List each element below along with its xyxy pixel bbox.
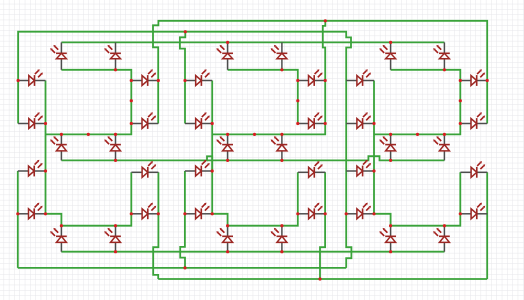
junction bottom rail D2 C-right — [318, 277, 321, 280]
junction D2 D2 bottom — [226, 250, 229, 253]
junction D3 D2 top — [443, 224, 446, 227]
junction D2 E2 left — [183, 212, 186, 215]
junction D1 B-left mid — [130, 99, 133, 102]
LED D1-B1 — [131, 69, 158, 86]
junction bus ROW2 dropper — [184, 30, 187, 33]
LED D2-B2 — [298, 112, 325, 129]
junction D1 E2 left — [16, 212, 19, 215]
junction D3 E2 right — [372, 212, 375, 215]
wire D2 C-right vertical with jog to bottom rail — [320, 172, 325, 279]
LED D3-B1 — [460, 69, 487, 86]
junction D1 G2 top — [114, 133, 117, 136]
junction D1-A2 bottom — [114, 68, 117, 71]
wire D2 D-segment top and C-left riser — [228, 172, 298, 225]
LED D1-G1 — [50, 134, 67, 160]
LED D2-D1 — [216, 226, 233, 252]
wire D-segment bottom rail — [61, 251, 444, 253]
junction D3 D2 bottom — [389, 250, 392, 253]
junction D1 D1 top — [60, 224, 63, 227]
LED D2-B1 — [298, 69, 325, 86]
LED D1-B2 — [131, 112, 158, 129]
junction D2 D2 top — [280, 224, 283, 227]
junction D1 G1 top — [60, 133, 63, 136]
junction D2 D1 top — [226, 224, 229, 227]
junction D1 G2 bottom — [114, 159, 117, 162]
wire D3 D-segment top and C-left riser — [391, 172, 461, 225]
junction D3 G1 bottom — [389, 159, 392, 162]
wire bottom rail ROW4 — [18, 267, 346, 269]
LED D3-B2 — [460, 112, 487, 129]
wire bus ROW1 top rail with end drops — [153, 21, 487, 124]
junction D3 C2 left — [459, 212, 462, 215]
junction D2-A2 bottom — [280, 68, 283, 71]
wire D2 A-segment bottom to B-left — [228, 70, 298, 124]
junction D2 B1 left — [296, 79, 299, 82]
LED D3-D2 — [433, 226, 450, 252]
wire D1 A-segment bottom to B-left — [61, 70, 131, 124]
junction D3 D1 top — [389, 224, 392, 227]
LED D2-C2 — [298, 203, 325, 220]
LED D3-D1 — [379, 226, 396, 252]
LED D2-E2 — [185, 203, 212, 220]
wire dropper to D2 F column — [180, 32, 185, 124]
junction D2 G mid — [253, 133, 256, 136]
junction D1 F1 left — [17, 79, 20, 82]
LED D2-F2 — [185, 112, 212, 129]
junction D1 B1 right — [157, 79, 160, 82]
LED D1-F1 — [18, 69, 45, 86]
LED D1-C2 — [131, 203, 158, 220]
LED D3-G2 — [433, 134, 450, 160]
junction D2-A1 top — [226, 41, 229, 44]
junction D2 G2 top — [280, 133, 283, 136]
junction D1 B2 left — [130, 122, 133, 125]
junction D2 E2 right — [211, 212, 214, 215]
LED D1-E1 — [18, 160, 46, 177]
wire G-segment bottom rail continued — [207, 156, 444, 160]
wire D1 E-left vertical — [17, 171, 19, 268]
LED D1-F2 — [18, 112, 45, 129]
junction D2 B1 right — [324, 79, 327, 82]
LED D3-A2 — [433, 42, 450, 69]
junction D1 G mid — [87, 133, 90, 136]
LED D3-F1 — [346, 69, 374, 86]
LED D2-F1 — [185, 69, 212, 86]
junction D2 C2 left — [296, 212, 299, 215]
LED D1-G2 — [104, 134, 121, 160]
LED D1-D2 — [104, 226, 121, 252]
junction D3 F2 right — [372, 122, 375, 125]
wire bottom rail ROW5 — [158, 278, 487, 280]
LED D1-D1 — [50, 226, 67, 252]
junction D3 G2 top — [443, 133, 446, 136]
wire D3 B-left riser to G-top — [374, 124, 460, 135]
junction D2 G1 bottom — [226, 159, 229, 162]
wire D3 F/E right vertical and D-top feed — [374, 81, 391, 226]
junction D2 G2 bottom — [280, 159, 283, 162]
junction D2 B-left mid — [296, 99, 299, 102]
junction D1 D2 bottom — [114, 250, 117, 253]
junction D1 F2 right — [44, 122, 47, 125]
wire dropper to D2 B column and D2 G-top — [212, 21, 325, 135]
wire D2 F/E right vertical and D-top feed — [212, 81, 227, 226]
LED D2-A2 — [271, 42, 288, 69]
junction D2 D2 bottom — [280, 250, 283, 253]
LED D2-A1 — [216, 42, 233, 69]
junction D3 B1 left — [459, 79, 462, 82]
junction D2 C2 right — [324, 212, 327, 215]
junction D2 F2 right — [211, 122, 214, 125]
junction D2 G1 top — [226, 133, 229, 136]
LED D2-G2 — [271, 134, 288, 160]
junction D1 D2 top — [114, 224, 117, 227]
junction D1 B1 left — [130, 79, 133, 82]
wire D3 A-segment bottom to B-left — [391, 70, 461, 124]
junction bus ROW1 dropper — [324, 19, 327, 22]
junction D2 F1 left — [183, 79, 186, 82]
wire D1 D-segment top and C-left riser — [61, 172, 131, 225]
LED D3-A1 — [379, 42, 396, 69]
wire bus ROW2 second rail — [18, 32, 351, 268]
wire bus ROW3 A-segment top rail — [61, 41, 444, 43]
wire D2 E-left vertical with jog — [180, 171, 185, 268]
junction D3 G mid — [416, 133, 419, 136]
LED D2-G1 — [216, 134, 233, 160]
wire D1 F/E right vertical and D-top feed — [46, 81, 62, 226]
LED D2-D2 — [271, 226, 288, 252]
junction D3-A1 top — [389, 41, 392, 44]
LED D1-A1 — [50, 42, 67, 69]
junction D2 B2 right — [324, 122, 327, 125]
wire D3 C-right vertical — [486, 172, 488, 279]
wire D1 C-right vertical to bottom rail — [153, 172, 158, 279]
LED D3-E2 — [346, 203, 374, 220]
junction D3 B1 right — [486, 79, 489, 82]
junction bottom rail D2 E-left — [183, 266, 186, 269]
junction D2 B2 left — [296, 122, 299, 125]
LED D3-E1 — [346, 160, 374, 177]
junction D3 E2 left — [345, 212, 348, 215]
wire G-segment bottom rail with jogs — [61, 156, 212, 171]
junction D1 E2 right — [44, 212, 47, 215]
LED D3-C1 — [460, 161, 487, 178]
junction D1 C2 right — [157, 212, 160, 215]
LED D1-A2 — [104, 42, 121, 69]
LED D2-C1 — [298, 161, 325, 178]
LED D3-C2 — [460, 203, 487, 220]
wire D1 B-left riser to G-top — [46, 124, 132, 135]
LED D3-F2 — [346, 112, 374, 129]
junction D2 E1 right — [211, 169, 214, 172]
junction D3 B-left mid — [459, 99, 462, 102]
LED D3-G1 — [379, 134, 396, 160]
junction D3-A2 bottom — [443, 68, 446, 71]
junction D1 C2 left — [130, 212, 133, 215]
junction D3 B2 left — [459, 122, 462, 125]
junction D3 E1 right — [372, 169, 375, 172]
LED D1-C1 — [131, 161, 158, 178]
junction D1 E1 right — [44, 169, 47, 172]
LED D2-E1 — [185, 160, 212, 177]
LED D1-E2 — [18, 203, 46, 220]
junction D3 G1 top — [389, 133, 392, 136]
